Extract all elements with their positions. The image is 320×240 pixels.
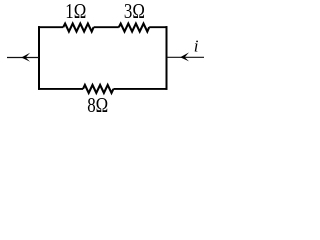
svg-text:1Ω: 1Ω [65, 0, 86, 23]
wire: top-right segment [149, 26, 167, 28]
svg-text:8Ω: 8Ω [87, 93, 108, 117]
resistor R2 3ohm zigzag [119, 24, 149, 32]
wire: right external lead [167, 56, 205, 58]
svg-text:3Ω: 3Ω [124, 0, 145, 23]
wire: right vertical side [166, 26, 168, 90]
resistor R3 8ohm zigzag [83, 85, 113, 93]
svg-text:i: i [194, 37, 199, 56]
resistor R1 1ohm zigzag [63, 24, 93, 32]
wire: bottom-right segment [113, 88, 167, 90]
wire: top-left segment [38, 26, 63, 28]
wire: bottom-left segment [38, 88, 83, 90]
wire: left vertical side [38, 26, 40, 90]
wire: top-middle segment between R1 and R2 [94, 26, 119, 28]
wire: left external lead [7, 57, 39, 59]
arrowhead on left lead pointing left [21, 53, 30, 62]
arrowhead for current i pointing left [180, 52, 189, 61]
